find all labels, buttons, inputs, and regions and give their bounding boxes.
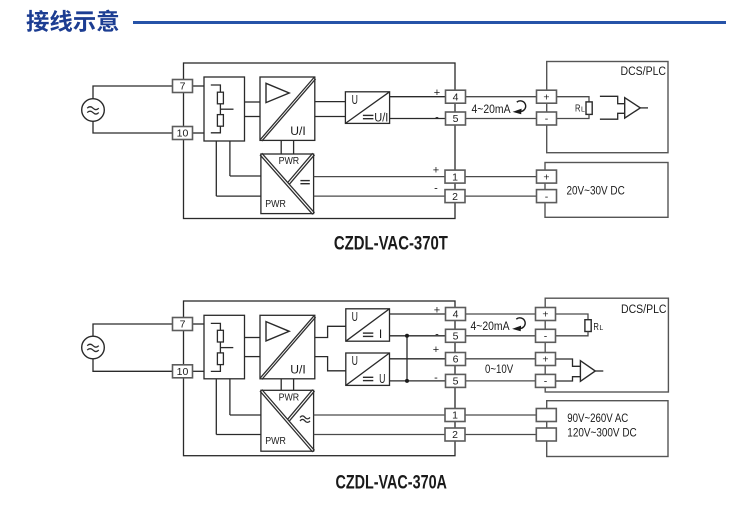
svg-text:CZDL-VAC-370T: CZDL-VAC-370T	[334, 234, 448, 255]
svg-text:-: -	[545, 113, 549, 125]
svg-text:90V~260V AC: 90V~260V AC	[567, 413, 628, 425]
amplifier/isolator block U/I (370A)	[260, 315, 315, 379]
wire PWR to terminal 1 (370A)	[314, 414, 445, 416]
wire input block to PWR lower (370A)	[215, 379, 217, 435]
wire terminal 10 to input block (370A)	[193, 370, 205, 372]
terminal 1 (370A)	[445, 409, 465, 422]
comparator output (370A)	[595, 370, 603, 372]
svg-text:+: +	[543, 171, 549, 183]
wire input to amp 2	[245, 116, 261, 118]
svg-text:20V~30V DC: 20V~30V DC	[567, 185, 625, 197]
DCS -2 terminal	[536, 374, 556, 387]
wire input block to PWR upper (370A)	[229, 379, 231, 415]
resistor R3	[217, 330, 223, 342]
svg-text:-: -	[544, 331, 548, 343]
input divider block (370A)	[204, 315, 245, 379]
wire PWR to terminal 2 (370A)	[314, 434, 445, 436]
wire	[216, 434, 261, 436]
amp triangle	[266, 83, 289, 102]
svg-text:-: -	[435, 329, 439, 341]
wire AC- to terminal 10	[93, 121, 173, 133]
divider top lead	[211, 85, 221, 92]
svg-text:U/I: U/I	[374, 112, 388, 124]
wire terminal 2 to supply-	[465, 195, 537, 197]
wire terminal 4 to DCS+	[466, 96, 537, 98]
resistor R1	[217, 92, 223, 104]
wire terminal 1 to supply (370A)	[465, 414, 536, 416]
terminal 7	[173, 80, 193, 93]
terminal 5	[446, 112, 466, 125]
title rule line	[133, 21, 726, 24]
wire RL to DCS-	[557, 114, 590, 118]
terminal 5 (370A)	[446, 329, 466, 342]
comparator input lower (370A)	[556, 377, 581, 381]
AC source G2	[82, 336, 105, 359]
wire terminal 2 to supply (370A)	[465, 434, 536, 436]
svg-text:+: +	[542, 354, 548, 366]
wire PWR to terminal 1	[314, 176, 445, 178]
terminal 4	[446, 90, 466, 103]
svg-text:-: -	[435, 111, 439, 123]
equals bar 2 (U=I)	[363, 335, 373, 337]
converter block U=I	[346, 309, 390, 341]
converter block U=U/I	[345, 92, 389, 124]
terminal 10 (370A)	[173, 365, 193, 378]
svg-text:I: I	[379, 327, 382, 341]
terminal 2	[445, 190, 465, 203]
converter diagonal	[345, 92, 389, 124]
wire DCS+ to RL (370A)	[556, 314, 589, 320]
power supply box 90V~260V	[547, 401, 668, 457]
wire amp to U=I	[315, 326, 346, 337]
svg-text:-: -	[434, 183, 438, 195]
PWR supply block (370A)	[261, 390, 314, 451]
wire terminal 6 to DCS+2	[466, 358, 536, 360]
svg-text:CZDL-VAC-370A: CZDL-VAC-370A	[335, 472, 447, 493]
wire input to amp 2 (370A)	[245, 356, 261, 358]
comparator input upper (370A)	[556, 359, 581, 366]
wire AC+ to terminal 7	[93, 86, 173, 99]
svg-text:U: U	[352, 93, 358, 107]
DCS + terminal	[537, 90, 557, 103]
divider bottom lead	[211, 126, 221, 133]
supply + terminal	[537, 170, 557, 183]
wire amp to converter 2	[315, 116, 346, 118]
svg-text:U: U	[352, 310, 358, 324]
wire terminal 5 to DCS- (370A)	[466, 335, 536, 337]
svg-text:-: -	[544, 376, 548, 388]
comparator output	[640, 107, 648, 109]
DCS/PLC box (370T)	[547, 62, 668, 153]
wire PWR to terminal 2	[314, 195, 445, 197]
svg-text:4~20mA: 4~20mA	[472, 104, 511, 116]
wire amp to PWR b	[293, 140, 295, 154]
svg-text:+: +	[434, 87, 440, 99]
wire terminal 7 to input block	[193, 85, 205, 87]
svg-text:120V~300V DC: 120V~300V DC	[567, 428, 636, 440]
comparator triangle U3	[580, 361, 595, 382]
equals bar 2 (U=U)	[363, 380, 373, 382]
wire amp to PWR a (370A)	[280, 379, 282, 391]
svg-text:U/I: U/I	[290, 124, 306, 138]
svg-text:7: 7	[180, 319, 186, 331]
DCS + terminal (370A)	[536, 308, 556, 321]
AC source G1	[82, 99, 105, 122]
DC symbol bar 2	[300, 183, 309, 185]
terminal 10	[173, 127, 193, 140]
svg-text:2: 2	[452, 191, 458, 203]
wire amp to U=U	[315, 357, 346, 371]
DC symbol bar 1	[300, 180, 309, 182]
wire U=U to terminal 6	[390, 358, 446, 360]
amp triangle (370A)	[266, 322, 289, 341]
svg-text:DCS/PLC: DCS/PLC	[621, 304, 667, 316]
wire AC+ to terminal 7 (370A)	[93, 324, 173, 336]
svg-text:+: +	[542, 309, 548, 321]
comparator input lower	[600, 113, 625, 119]
wire input to amp 1	[245, 101, 261, 103]
svg-text:+: +	[543, 91, 549, 103]
svg-text:1: 1	[452, 410, 458, 422]
divider bottom lead (370A)	[211, 365, 221, 372]
DCS - terminal (370A)	[536, 329, 556, 342]
svg-text:0~10V: 0~10V	[485, 364, 513, 376]
svg-text:4~20mA: 4~20mA	[471, 321, 510, 333]
loop arrow (370A)	[516, 318, 525, 329]
DCS - terminal	[537, 112, 557, 125]
isolator outer box (370A)	[184, 301, 456, 456]
svg-text:5: 5	[453, 113, 459, 125]
svg-text:1: 1	[452, 171, 458, 183]
isolation diagonal (amp 370A)	[262, 317, 316, 379]
wire U=U to terminal 5b	[390, 380, 446, 382]
PWR supply block (370T)	[261, 154, 314, 214]
wire junction link	[406, 336, 408, 381]
junction node B	[405, 379, 409, 383]
isolator outer box (370T)	[184, 63, 456, 219]
wire input block to PWR lower	[215, 141, 217, 196]
comparator input upper	[600, 96, 625, 103]
wire amp to PWR b (370A)	[293, 379, 295, 391]
svg-text:DCS/PLC: DCS/PLC	[621, 66, 667, 78]
svg-text:+: +	[433, 165, 439, 177]
wire terminal 10 to input block	[193, 132, 205, 134]
svg-text:2: 2	[452, 429, 458, 441]
converter block U=U	[346, 353, 390, 385]
svg-text:10: 10	[177, 128, 189, 140]
svg-text:PWR: PWR	[265, 436, 286, 447]
svg-text:6: 6	[453, 354, 459, 366]
equals sign bar 2	[363, 118, 374, 120]
comparator triangle U2	[625, 98, 641, 118]
terminal 7 (370A)	[173, 318, 193, 331]
DCS/PLC box (370A)	[545, 298, 668, 392]
svg-text:7: 7	[180, 81, 186, 93]
wire input to amp 1 (370A)	[245, 337, 261, 339]
power supply box 20V~30V DC	[545, 163, 668, 218]
wire terminal 4 to DCS+ (370A)	[466, 313, 536, 315]
isolation diagonal (amp)	[262, 79, 316, 141]
wire terminal 1 to supply+	[465, 176, 537, 178]
loop arrow	[517, 101, 526, 112]
svg-text:-: -	[545, 191, 549, 203]
svg-text:4: 4	[453, 309, 459, 321]
junction node A	[405, 334, 409, 338]
svg-text:5: 5	[453, 331, 459, 343]
terminal 5b	[446, 374, 466, 387]
wire U=I to terminal 5 (370A)	[390, 335, 446, 337]
terminal 1	[445, 170, 465, 183]
wire RL to DCS- (370A)	[556, 332, 589, 336]
svg-text:-: -	[434, 372, 438, 384]
wire AC- to terminal 10 (370A)	[93, 359, 173, 372]
svg-text:4: 4	[453, 91, 459, 103]
divider tap (370A)	[220, 347, 233, 349]
svg-text:L: L	[599, 325, 603, 332]
svg-text:U/I: U/I	[290, 362, 306, 376]
PWR diagonal TR-center	[288, 153, 313, 182]
terminal 6	[446, 353, 466, 366]
svg-text:PWR: PWR	[265, 199, 286, 210]
equals bar 1 (U=U)	[363, 376, 373, 378]
equals bar 1 (U=I)	[363, 332, 373, 334]
svg-text:+: +	[434, 305, 440, 317]
PWR diagonal TL-BR	[260, 155, 313, 215]
svg-text:R: R	[575, 104, 581, 115]
wire terminal 5 to DCS-	[466, 118, 537, 120]
wire	[230, 414, 261, 416]
terminal 4 (370A)	[446, 308, 466, 321]
wire amp to PWR a	[280, 140, 282, 154]
wire between R1 R2	[219, 104, 221, 115]
supply terminal a	[536, 409, 556, 422]
svg-text:PWR: PWR	[279, 156, 300, 167]
converter U=U diagonal	[346, 353, 390, 385]
svg-text:PWR: PWR	[279, 392, 300, 403]
divider tap	[220, 108, 233, 110]
svg-text:U: U	[352, 354, 358, 368]
wire DCS+ to RL	[557, 97, 590, 102]
supply - terminal	[537, 190, 557, 203]
title text 接线示意	[26, 10, 118, 32]
PWR diagonal TR-center (370A)	[288, 390, 313, 420]
supply terminal b	[536, 428, 556, 441]
svg-text:U: U	[379, 372, 385, 386]
svg-text:+: +	[433, 344, 439, 356]
svg-text:R: R	[593, 322, 599, 333]
resistor R2	[217, 115, 223, 127]
AC symbol in PWR	[300, 416, 310, 419]
wire converter to terminal 5	[390, 118, 446, 120]
equals sign bar 1	[363, 114, 374, 116]
terminal 2 (370A)	[445, 428, 465, 441]
PWR diagonal TL-BR (370A)	[260, 391, 313, 452]
wire	[230, 175, 261, 177]
svg-text:10: 10	[177, 366, 189, 378]
svg-text:L: L	[581, 107, 585, 114]
amplifier/isolator block U/I (370T)	[260, 77, 315, 140]
wire terminal 5b to DCS-2	[466, 380, 536, 382]
input divider block (370T)	[204, 77, 245, 141]
resistor R4	[217, 353, 223, 365]
DCS +2 terminal	[536, 353, 556, 366]
svg-text:5: 5	[453, 376, 459, 388]
divider top lead (370A)	[211, 323, 221, 330]
wire U=I to terminal 4 (370A)	[390, 313, 446, 315]
wire terminal 7 to input block (370A)	[193, 323, 205, 325]
wire	[216, 195, 261, 197]
wire between R3 R4	[219, 342, 221, 353]
resistor RL (370T)	[586, 102, 592, 115]
wire amp to converter 1	[315, 101, 346, 103]
wire input block to PWR upper	[229, 141, 231, 176]
resistor RL (370A)	[585, 320, 591, 332]
converter U=I diagonal	[346, 309, 390, 341]
wire converter to terminal 4	[390, 96, 446, 98]
